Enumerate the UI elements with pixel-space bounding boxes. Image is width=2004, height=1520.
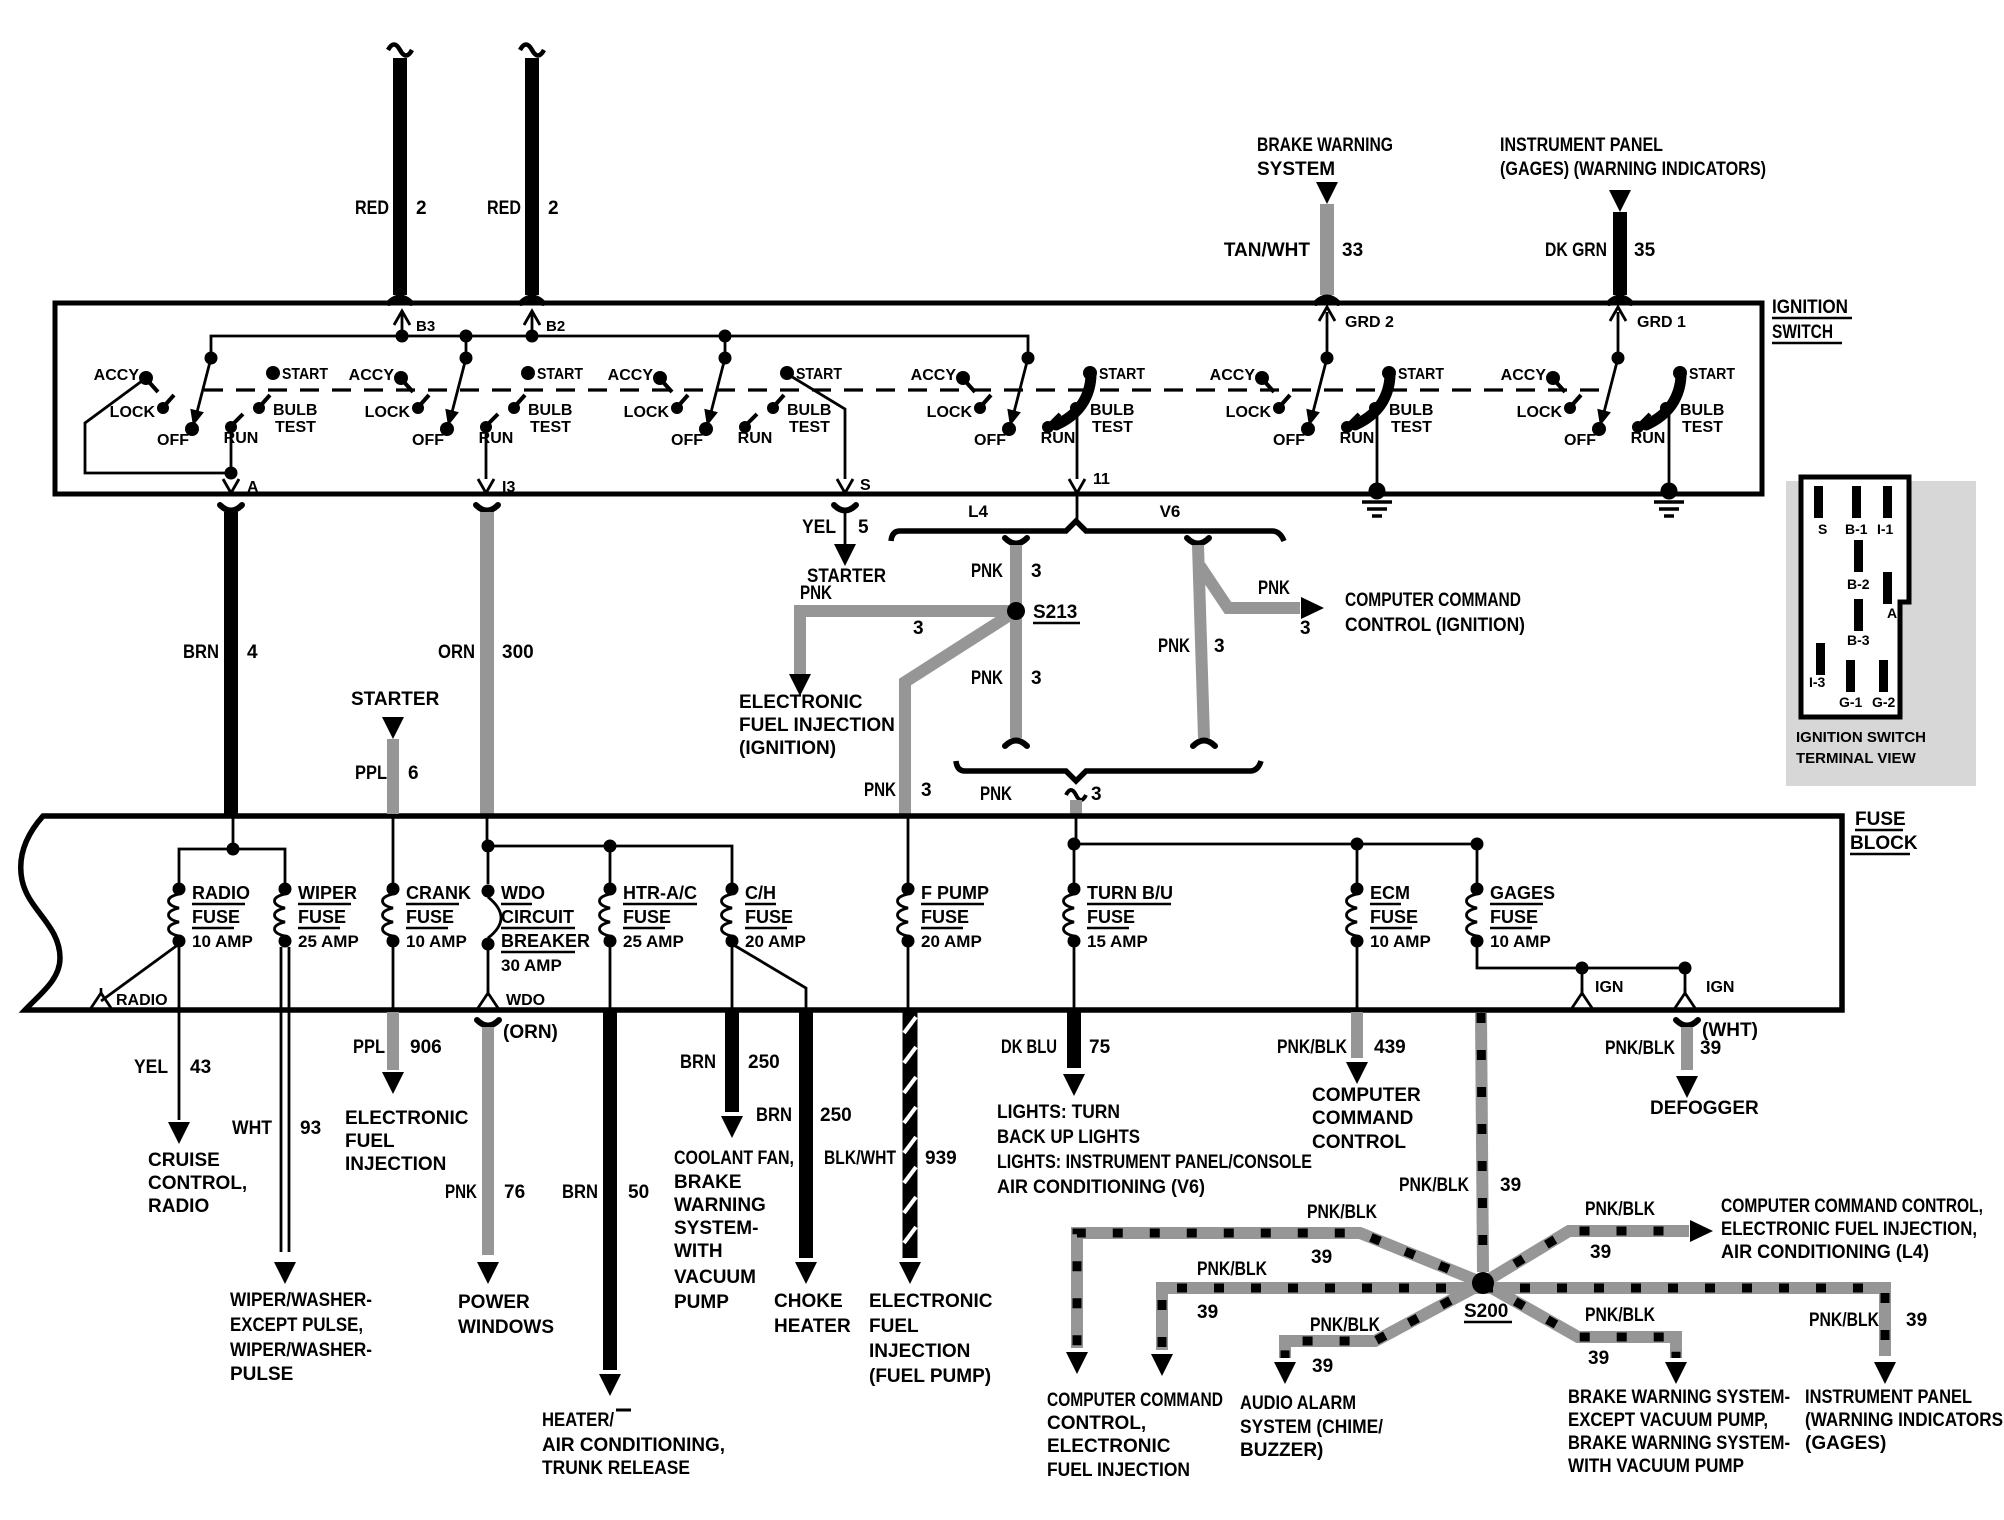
svg-text:BLOCK: BLOCK — [1850, 833, 1918, 854]
ignition switch section pivot x=1028 — [1022, 352, 1035, 365]
svg-text:AIR CONDITIONING (V6): AIR CONDITIONING (V6) — [997, 1177, 1205, 1198]
svg-text:39: 39 — [1906, 1310, 1927, 1331]
wire PNK 3 (S213 down to bracket) — [1010, 611, 1022, 738]
svg-text:START: START — [796, 366, 842, 383]
svg-text:939: 939 — [925, 1148, 957, 1169]
svg-text:AIR CONDITIONING,: AIR CONDITIONING, — [542, 1435, 725, 1456]
svg-text:FUEL INJECTION: FUEL INJECTION — [739, 715, 895, 736]
svg-text:BREAKER: BREAKER — [501, 931, 590, 951]
svg-text:DK BLU: DK BLU — [1001, 1037, 1057, 1058]
svg-text:F PUMP: F PUMP — [921, 883, 989, 903]
svg-text:RED: RED — [487, 198, 521, 219]
svg-text:PNK: PNK — [971, 561, 1003, 582]
svg-text:ACCY: ACCY — [1210, 367, 1256, 384]
svg-text:(WARNING INDICATORS: (WARNING INDICATORS — [1805, 1410, 2003, 1431]
svg-text:COMPUTER: COMPUTER — [1312, 1085, 1421, 1106]
terminal I-1 — [1883, 486, 1892, 518]
svg-text:TERMINAL VIEW: TERMINAL VIEW — [1796, 750, 1917, 767]
wire riser section 3 pivot — [724, 336, 727, 358]
wire PNK 3 (to TURN B/U fuse) — [1070, 800, 1082, 814]
svg-text:OFF: OFF — [671, 432, 703, 449]
connector cap terminal I3 — [476, 505, 498, 511]
svg-text:S200: S200 — [1464, 1301, 1508, 1322]
contact LOCK — [1564, 402, 1576, 414]
connector IGN 2 — [1675, 993, 1695, 1008]
wire PNK/BLK 39 to brake warning system — [1483, 1283, 1676, 1358]
contact ACCY — [139, 371, 153, 385]
svg-text:BRAKE WARNING SYSTEM-: BRAKE WARNING SYSTEM- — [1568, 1433, 1790, 1454]
wire PNK/BLK 439 to computer command control — [1356, 944, 1359, 1008]
terminal B-2 — [1854, 540, 1863, 572]
wire RED 2 (battery feed to B2) — [520, 45, 544, 56]
svg-text:LOCK: LOCK — [1226, 404, 1272, 421]
svg-text:INJECTION: INJECTION — [869, 1341, 970, 1362]
svg-text:39: 39 — [1312, 1356, 1333, 1377]
wire BRN feed to RADIO/WIPER fuses — [232, 816, 235, 849]
svg-text:PUMP: PUMP — [674, 1292, 729, 1313]
svg-text:RADIO: RADIO — [116, 992, 168, 1009]
terminal I1 (11) output — [1076, 412, 1079, 479]
contact START — [1083, 366, 1097, 380]
svg-text:LOCK: LOCK — [1517, 404, 1563, 421]
svg-text:43: 43 — [190, 1057, 211, 1078]
svg-text:2: 2 — [416, 198, 427, 219]
terminal GRD 2 arrow — [1326, 312, 1329, 358]
svg-text:GAGES: GAGES — [1490, 883, 1555, 903]
ignition switch section pivot x=466 — [460, 352, 473, 365]
contact BULB TEST — [1070, 402, 1082, 414]
svg-text:SWITCH: SWITCH — [1772, 322, 1833, 343]
wire GAGES to IGN connectors — [1477, 944, 1685, 968]
wire PNK/BLK 39 to computer command control (L4) — [1483, 1231, 1689, 1283]
svg-text:HEATER/: HEATER/ — [542, 1410, 615, 1431]
svg-text:WINDOWS: WINDOWS — [458, 1317, 554, 1338]
svg-text:WIPER: WIPER — [298, 883, 357, 903]
wire DK BLU 75 to lights — [1073, 944, 1076, 1008]
svg-text:RED: RED — [355, 198, 389, 219]
contact OFF — [1592, 422, 1606, 436]
contact BULB TEST — [767, 402, 779, 414]
svg-text:B2: B2 — [546, 318, 565, 335]
svg-text:LOCK: LOCK — [365, 404, 411, 421]
svg-text:COMMAND: COMMAND — [1312, 1108, 1413, 1129]
fuse RADIO 10 AMP — [173, 883, 186, 896]
wire PNK/BLK 39 to defogger — [1676, 1020, 1698, 1026]
svg-text:BULB: BULB — [1090, 402, 1134, 419]
svg-text:SYSTEM: SYSTEM — [1257, 159, 1335, 180]
contact OFF — [1002, 422, 1016, 436]
svg-text:25 AMP: 25 AMP — [623, 932, 684, 951]
contact RUN — [739, 421, 751, 433]
svg-text:ELECTRONIC FUEL INJECTION,: ELECTRONIC FUEL INJECTION, — [1721, 1219, 1977, 1240]
svg-text:OFF: OFF — [1273, 432, 1305, 449]
lever engaged to START (thick) — [1347, 424, 1357, 427]
svg-text:B-3: B-3 — [1847, 632, 1870, 648]
fuse HTR-A/C 25 AMP — [604, 883, 617, 896]
svg-text:S: S — [1818, 521, 1827, 537]
wire PPL 906 to electronic fuel injection — [392, 944, 395, 1008]
svg-text:TEST: TEST — [530, 419, 571, 436]
svg-text:6: 6 — [408, 763, 419, 784]
svg-text:300: 300 — [502, 642, 534, 663]
svg-text:DEFOGGER: DEFOGGER — [1650, 1098, 1759, 1119]
svg-text:TEST: TEST — [1391, 419, 1432, 436]
svg-text:COMPUTER COMMAND CONTROL,: COMPUTER COMMAND CONTROL, — [1721, 1196, 1983, 1217]
svg-text:33: 33 — [1342, 240, 1363, 261]
contact OFF — [1301, 422, 1315, 436]
wire BRN 4 — [224, 512, 238, 814]
svg-text:3: 3 — [1214, 636, 1225, 657]
svg-text:BRAKE WARNING SYSTEM-: BRAKE WARNING SYSTEM- — [1568, 1387, 1790, 1408]
contact BULB TEST — [1369, 402, 1381, 414]
svg-text:4: 4 — [247, 642, 258, 663]
fuse TURN B/U 15 AMP — [1068, 883, 1081, 896]
svg-text:AUDIO ALARM: AUDIO ALARM — [1240, 1393, 1356, 1414]
svg-text:CHOKE: CHOKE — [774, 1291, 843, 1312]
svg-text:50: 50 — [628, 1182, 649, 1203]
svg-text:FUSE: FUSE — [1490, 907, 1538, 927]
svg-text:(GAGES): (GAGES) — [1805, 1433, 1886, 1454]
svg-text:PNK: PNK — [980, 784, 1012, 805]
svg-text:COMPUTER COMMAND: COMPUTER COMMAND — [1047, 1390, 1223, 1411]
svg-text:SYSTEM-: SYSTEM- — [674, 1218, 758, 1239]
fuse ECM 10 AMP — [1351, 883, 1364, 896]
svg-text:BRAKE: BRAKE — [674, 1172, 742, 1193]
contact ACCY — [394, 371, 408, 385]
svg-text:INSTRUMENT PANEL: INSTRUMENT PANEL — [1500, 135, 1663, 156]
contact START — [521, 366, 535, 380]
wire RED 2 (battery feed to B3) — [388, 45, 412, 56]
svg-text:AIR CONDITIONING (L4): AIR CONDITIONING (L4) — [1721, 1242, 1929, 1263]
svg-text:RUN: RUN — [738, 430, 773, 447]
splice S213 — [1007, 602, 1025, 620]
svg-text:PNK: PNK — [1258, 578, 1290, 599]
svg-text:YEL: YEL — [134, 1057, 168, 1078]
ignition switch section pivot x=211 — [205, 352, 218, 365]
svg-text:39: 39 — [1311, 1247, 1332, 1268]
svg-text:FUSE: FUSE — [298, 907, 346, 927]
bracket L4 / V6 — [891, 521, 1284, 541]
contact LOCK — [974, 402, 986, 414]
ignition switch box — [55, 303, 1762, 494]
svg-text:ELECTRONIC: ELECTRONIC — [345, 1108, 469, 1129]
svg-text:39: 39 — [1700, 1038, 1721, 1059]
svg-text:START: START — [1689, 366, 1735, 383]
contact LOCK — [157, 402, 169, 414]
wire BLK/WHT 939 to fuel pump — [907, 944, 910, 1008]
terminal B-1 — [1852, 486, 1861, 518]
svg-text:S: S — [860, 477, 871, 494]
fuse F PUMP 20 AMP — [907, 816, 910, 884]
svg-text:B-1: B-1 — [1845, 521, 1868, 537]
wire terminal I1 to engine bracket — [1076, 494, 1079, 524]
svg-text:ACCY: ACCY — [1501, 367, 1547, 384]
svg-text:11: 11 — [1093, 471, 1110, 488]
svg-text:STARTER: STARTER — [351, 689, 440, 710]
svg-text:250: 250 — [820, 1105, 852, 1126]
terminal B3 arrow — [401, 312, 404, 336]
wire BRN 250 to choke heater — [732, 944, 806, 1008]
contact LOCK — [412, 402, 424, 414]
detent dashed line — [204, 388, 1602, 391]
wire BRN 250 to coolant fan — [731, 944, 734, 1008]
contact ACCY — [1546, 371, 1560, 385]
contact RUN — [1632, 421, 1644, 433]
svg-text:RUN: RUN — [1340, 430, 1375, 447]
svg-text:FUSE: FUSE — [921, 907, 969, 927]
fuse block box — [21, 816, 1842, 1010]
ignition switch section pivot x=725 — [719, 352, 732, 365]
svg-text:BRAKE WARNING: BRAKE WARNING — [1257, 135, 1393, 156]
svg-text:WIPER/WASHER-: WIPER/WASHER- — [230, 1290, 372, 1311]
wire YEL 5 to starter — [834, 505, 856, 511]
svg-text:GRD 2: GRD 2 — [1345, 314, 1394, 331]
svg-text:OFF: OFF — [1564, 432, 1596, 449]
svg-text:WHT: WHT — [232, 1118, 272, 1139]
ignition switch terminal view — [1786, 481, 1976, 786]
svg-text:START: START — [1398, 366, 1444, 383]
svg-text:C/H: C/H — [745, 883, 776, 903]
svg-text:OFF: OFF — [157, 432, 189, 449]
svg-text:39: 39 — [1590, 1242, 1611, 1263]
node bus junctions — [396, 330, 409, 343]
terminal I-3 — [1816, 643, 1825, 675]
svg-text:INSTRUMENT PANEL: INSTRUMENT PANEL — [1805, 1387, 1972, 1408]
svg-text:RUN: RUN — [1631, 430, 1666, 447]
svg-text:START: START — [537, 366, 583, 383]
connector RADIO — [101, 944, 179, 1001]
svg-text:WARNING: WARNING — [674, 1195, 766, 1216]
contact ACCY — [653, 371, 667, 385]
svg-text:3: 3 — [1031, 668, 1042, 689]
svg-text:CONTROL: CONTROL — [1312, 1132, 1406, 1153]
svg-text:TEST: TEST — [275, 419, 316, 436]
svg-text:BULB: BULB — [1389, 402, 1433, 419]
wire riser section 2 pivot — [465, 336, 468, 358]
svg-text:PNK/BLK: PNK/BLK — [1197, 1259, 1267, 1280]
svg-text:ORN: ORN — [438, 642, 475, 663]
wire PNK/BLK 39 to computer command control (left) — [1162, 1288, 1483, 1350]
svg-text:CONTROL,: CONTROL, — [1047, 1413, 1146, 1434]
wire ACCY bypass to terminal A — [85, 378, 231, 473]
svg-text:250: 250 — [748, 1052, 780, 1073]
wire ORN feed to WDO breaker — [486, 816, 489, 846]
svg-text:B-2: B-2 — [1847, 576, 1870, 592]
svg-text:I3: I3 — [502, 479, 515, 496]
svg-text:PNK/BLK: PNK/BLK — [1277, 1037, 1347, 1058]
svg-text:BRN: BRN — [680, 1052, 716, 1073]
svg-text:PNK: PNK — [445, 1182, 477, 1203]
terminal B2 arrow — [531, 312, 534, 336]
svg-text:PNK/BLK: PNK/BLK — [1310, 1315, 1380, 1336]
svg-text:START: START — [282, 366, 328, 383]
svg-text:S213: S213 — [1033, 602, 1077, 623]
wire PNK 3 (L4 branch) — [1010, 545, 1022, 605]
terminal A output — [230, 427, 233, 479]
contact OFF — [699, 422, 713, 436]
contact START — [1673, 366, 1687, 380]
svg-text:TURN B/U: TURN B/U — [1087, 883, 1173, 903]
wire PNK 76 to power windows — [477, 1020, 499, 1026]
wire PNK/BLK 39 to audio alarm system — [1285, 1283, 1483, 1358]
svg-text:39: 39 — [1500, 1175, 1521, 1196]
svg-text:ELECTRONIC: ELECTRONIC — [869, 1291, 993, 1312]
svg-text:RUN: RUN — [479, 430, 514, 447]
svg-text:35: 35 — [1634, 240, 1656, 261]
svg-text:75: 75 — [1089, 1037, 1111, 1058]
svg-text:CONTROL,: CONTROL, — [148, 1173, 247, 1194]
terminal B-3 — [1854, 599, 1863, 631]
svg-text:PNK: PNK — [864, 780, 896, 801]
svg-text:TRUNK RELEASE: TRUNK RELEASE — [542, 1458, 690, 1479]
contact RUN — [480, 421, 492, 433]
svg-text:FUSE: FUSE — [192, 907, 240, 927]
contact LOCK — [671, 402, 683, 414]
svg-text:10 AMP: 10 AMP — [406, 932, 467, 951]
svg-text:15 AMP: 15 AMP — [1087, 932, 1148, 951]
terminal S — [1814, 486, 1823, 518]
svg-text:FUEL: FUEL — [345, 1131, 395, 1152]
svg-text:TEST: TEST — [789, 419, 830, 436]
svg-text:FUSE: FUSE — [1370, 907, 1418, 927]
svg-text:START: START — [1099, 366, 1145, 383]
svg-text:ELECTRONIC: ELECTRONIC — [739, 692, 863, 713]
svg-text:ACCY: ACCY — [608, 367, 654, 384]
svg-text:3: 3 — [1091, 784, 1102, 805]
svg-text:PNK: PNK — [971, 668, 1003, 689]
svg-text:BULB: BULB — [787, 402, 831, 419]
svg-text:439: 439 — [1374, 1037, 1406, 1058]
svg-text:2: 2 — [548, 198, 559, 219]
svg-text:FUSE: FUSE — [623, 907, 671, 927]
fuse C/H 20 AMP — [726, 883, 739, 896]
svg-text:COOLANT FAN,: COOLANT FAN, — [674, 1148, 794, 1169]
fuse GAGES 10 AMP — [1471, 883, 1484, 896]
svg-text:OFF: OFF — [412, 432, 444, 449]
svg-text:76: 76 — [504, 1182, 525, 1203]
svg-text:39: 39 — [1197, 1302, 1218, 1323]
svg-text:PNK/BLK: PNK/BLK — [1399, 1175, 1469, 1196]
contact START — [780, 366, 794, 380]
svg-text:BRN: BRN — [562, 1182, 598, 1203]
svg-text:EXCEPT VACUUM PUMP,: EXCEPT VACUUM PUMP, — [1568, 1410, 1768, 1431]
svg-text:PNK/BLK: PNK/BLK — [1605, 1038, 1675, 1059]
wire PNK/BLK 39 to computer command control / EFI (upper left) — [1077, 1233, 1483, 1348]
svg-text:39: 39 — [1588, 1348, 1609, 1369]
ground G1 — [1668, 407, 1671, 491]
svg-text:HEATER: HEATER — [774, 1316, 851, 1337]
wire PNK 3 (S213 to F PUMP fuse) — [905, 611, 1016, 814]
svg-text:ACCY: ACCY — [94, 367, 140, 384]
svg-text:30 AMP: 30 AMP — [501, 956, 562, 975]
wire ORN 300 — [480, 512, 494, 814]
svg-text:LOCK: LOCK — [110, 404, 156, 421]
svg-text:LOCK: LOCK — [624, 404, 670, 421]
contact START — [266, 366, 280, 380]
contact START — [1382, 366, 1396, 380]
svg-text:I-3: I-3 — [1809, 674, 1826, 690]
svg-text:POWER: POWER — [458, 1292, 530, 1313]
svg-text:25 AMP: 25 AMP — [298, 932, 359, 951]
wire PNK 3 (S213 to electronic fuel injection) — [800, 611, 1016, 676]
svg-text:(ORN): (ORN) — [503, 1022, 558, 1043]
connector cap terminal A — [220, 505, 242, 511]
contact BULB TEST — [508, 402, 520, 414]
svg-text:PPL: PPL — [353, 1037, 385, 1058]
wire PNK 3 to computer command control (ignition) — [1200, 566, 1300, 608]
svg-text:20 AMP: 20 AMP — [745, 932, 806, 951]
wire PNK/BLK 39 to instrument panel — [1483, 1288, 1885, 1356]
svg-text:TEST: TEST — [1682, 419, 1723, 436]
svg-text:PPL: PPL — [355, 763, 387, 784]
terminal G-2 — [1879, 660, 1888, 692]
contact RUN — [225, 421, 237, 433]
lever engaged to START (thick) — [1638, 424, 1648, 427]
svg-text:B3: B3 — [416, 318, 435, 335]
terminal A — [1883, 572, 1892, 604]
svg-text:RUN: RUN — [1041, 430, 1076, 447]
svg-text:I-1: I-1 — [1877, 521, 1894, 537]
svg-text:PNK/BLK: PNK/BLK — [1585, 1199, 1655, 1220]
svg-text:BULB: BULB — [528, 402, 572, 419]
svg-text:GRD 1: GRD 1 — [1637, 314, 1686, 331]
svg-text:(IGNITION): (IGNITION) — [739, 738, 836, 759]
svg-text:PNK/BLK: PNK/BLK — [1585, 1305, 1655, 1326]
wire DK GRN 35 — [1613, 212, 1627, 295]
contact LOCK — [1273, 402, 1285, 414]
contact BULB TEST — [1660, 402, 1672, 414]
connector cap V6 — [1187, 538, 1209, 544]
wire PNK 3 (V6 branch) — [1198, 545, 1204, 738]
contact OFF — [185, 422, 199, 436]
connector WDO — [487, 944, 490, 996]
svg-text:RADIO: RADIO — [192, 883, 250, 903]
svg-text:20 AMP: 20 AMP — [921, 932, 982, 951]
svg-text:DK GRN: DK GRN — [1545, 240, 1607, 261]
svg-text:BULB: BULB — [273, 402, 317, 419]
svg-text:IGNITION SWITCH: IGNITION SWITCH — [1796, 729, 1926, 746]
svg-text:CIRCUIT: CIRCUIT — [501, 907, 574, 927]
svg-text:WDO: WDO — [501, 883, 545, 903]
terminal S output — [789, 375, 845, 479]
svg-text:VACUUM: VACUUM — [674, 1267, 756, 1288]
lever engaged to START (thick) — [1048, 424, 1058, 427]
wire YEL 43 to cruise control — [178, 944, 181, 1120]
svg-text:BLK/WHT: BLK/WHT — [824, 1148, 896, 1169]
svg-text:A: A — [1887, 605, 1897, 621]
svg-text:TAN/WHT: TAN/WHT — [1224, 240, 1311, 261]
svg-text:FUSE: FUSE — [1087, 907, 1135, 927]
svg-text:WIPER/WASHER-: WIPER/WASHER- — [230, 1340, 372, 1361]
svg-text:BRN: BRN — [183, 642, 219, 663]
contact OFF — [440, 422, 454, 436]
svg-text:ELECTRONIC: ELECTRONIC — [1047, 1436, 1171, 1457]
svg-text:BACK UP LIGHTS: BACK UP LIGHTS — [997, 1127, 1140, 1148]
svg-text:L4: L4 — [968, 502, 988, 521]
svg-text:HTR-A/C: HTR-A/C — [623, 883, 697, 903]
svg-text:PNK: PNK — [1158, 636, 1190, 657]
terminal I3 output — [485, 427, 488, 479]
svg-text:3: 3 — [1300, 618, 1311, 639]
svg-text:OFF: OFF — [974, 432, 1006, 449]
fuse WIPER 25 AMP — [279, 883, 292, 896]
svg-text:CRANK: CRANK — [406, 883, 471, 903]
svg-text:COMPUTER COMMAND: COMPUTER COMMAND — [1345, 590, 1521, 611]
splice S200 — [1472, 1272, 1494, 1294]
terminal G-1 — [1846, 660, 1855, 692]
svg-text:YEL: YEL — [802, 517, 836, 538]
svg-text:LOCK: LOCK — [927, 404, 973, 421]
